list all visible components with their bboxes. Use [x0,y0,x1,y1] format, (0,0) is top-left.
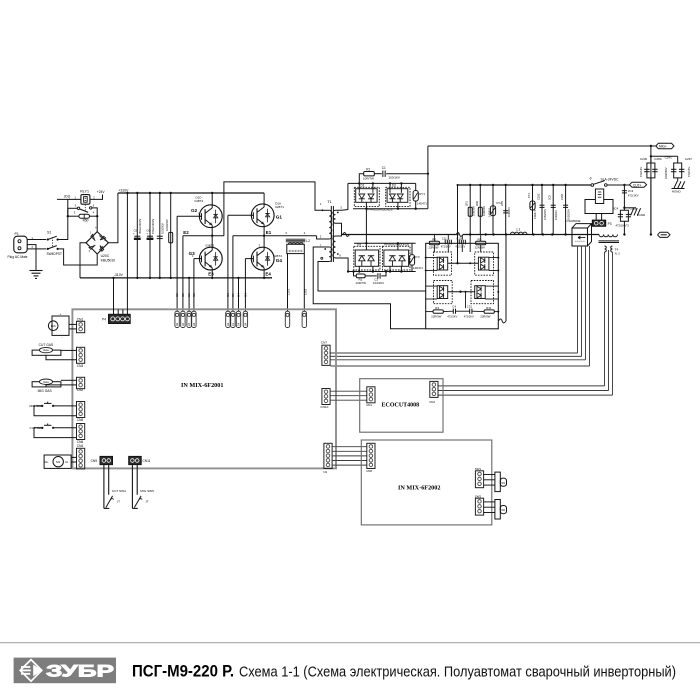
svg-text:G1: G1 [226,293,230,297]
wire MIG+ riser [427,146,429,209]
svg-text:105/250V: 105/250V [543,209,547,220]
wire G1 gate [228,214,254,216]
wire J1 to CUT+ [607,184,630,186]
wire T4 tap [608,250,610,391]
svg-text:T1: T1 [327,200,331,204]
wire bridge to +310 rail [108,193,118,243]
wire valve2 to CN2 [61,379,77,381]
svg-text:-: - [62,336,63,340]
svg-text:E3: E3 [187,293,191,297]
wire bundle CN7 to sensor [331,352,578,354]
wire P4 pin1 to -310 [112,277,114,279]
svg-text:N1: N1 [323,470,327,474]
wire D1D2 cathode bus to MIG riser [353,208,428,210]
svg-text:S1: S1 [47,231,51,235]
svg-text:IN MIX-6F2001: IN MIX-6F2001 [181,382,223,389]
svg-text:472/2KV: 472/2KV [447,314,457,318]
wire T1 pin6 to lower bus [336,258,349,272]
svg-text:103/1KV: 103/1KV [373,281,384,285]
potentiometer RW2 [484,501,495,503]
diode module Q1 [434,252,452,275]
svg-text:472/1KV: 472/1KV [441,244,451,248]
capacitor C252 [541,184,543,186]
relay contact [77,207,79,209]
svg-text:G4: G4 [276,258,283,263]
connector CN8 [367,443,375,468]
svg-text:CN7: CN7 [321,341,327,345]
svg-text:2C5: 2C5 [548,195,552,200]
ground LGND [623,207,625,209]
svg-text:JT: JT [145,500,148,504]
resistor R1 [359,174,363,184]
svg-text:CUT GAS: CUT GAS [39,343,54,347]
svg-text:CN1: CN1 [366,403,372,407]
pin header L202 [302,311,306,327]
fan FAN1 [52,316,69,335]
pin header G2S [175,311,179,327]
capacitor 2C5 [552,184,554,186]
svg-text:L201: L201 [287,288,291,295]
pin header E3S [187,311,191,327]
svg-text:-310V: -310V [114,273,124,277]
wire lower cathode bus [354,242,416,244]
svg-text:E4: E4 [237,293,241,297]
diode module Q2 [475,252,494,275]
resistor R5 [476,241,486,244]
potentiometer RW1 [484,474,495,476]
svg-text:3C4: 3C4 [613,206,619,210]
svg-text:+24V: +24V [97,190,106,194]
connector P3 [595,214,597,221]
svg-text:IN MIX-6F2002: IN MIX-6F2002 [398,484,440,491]
svg-text:G1: G1 [276,215,283,220]
wire sensor leads [577,246,579,353]
pin header G3S [192,311,196,327]
svg-text:IGBT1: IGBT1 [275,205,284,209]
capacitor C31 [469,309,471,314]
varistor RY1 [532,185,534,235]
svg-text:CUT+: CUT+ [633,183,642,187]
valve MIG GAS [32,382,61,387]
svg-text:472/1KV: 472/1KV [455,244,465,248]
wire fan to CN1 [69,323,77,325]
svg-text:CN3: CN3 [77,364,84,368]
wire bridge - return to switch [58,249,98,265]
svg-text:CN1: CN1 [77,317,84,321]
wire G2 emitter to E2 [211,225,213,235]
diode module Q4 [471,281,494,304]
wire T1 pin3 to D bus [336,183,348,210]
capacitor C251 [564,184,566,186]
transformer T4 [599,235,618,237]
svg-text:100R/2W: 100R/2W [165,219,169,231]
resistor R4 [433,310,443,313]
svg-text:Схема 1-1 (Схема электрическая: Схема 1-1 (Схема электрическая. Полуавто… [239,663,676,680]
wire module mid bus lower [448,291,475,293]
svg-text:R50: R50 [83,218,89,222]
wire T1 pin8 aux [321,257,323,259]
svg-text:W1: W1 [501,482,505,485]
wire CN10 to ECOCUT CN1 [330,390,367,392]
wire G4 gate [245,258,253,260]
svg-text:L1: L1 [517,228,521,232]
svg-text:R1: R1 [366,167,370,171]
connector CN10 [322,389,330,405]
wire E4 drop [237,277,239,279]
wire output column [650,146,652,235]
wire lower anode bus [348,271,416,273]
connector CN6 [77,424,85,440]
wire inter bus tie [365,209,367,244]
svg-text:Plug AC Male: Plug AC Male [8,255,28,259]
pin header E2S [181,311,185,327]
resistor R2 [354,272,357,276]
svg-text:Valve: Valve [43,381,50,384]
capacitor 2C1 [505,184,507,186]
svg-text:CS0050NE: CS0050NE [567,219,581,223]
svg-text:22R/5W: 22R/5W [475,245,485,249]
resistor 2R2 [479,184,481,186]
wire T1 center tap [336,223,342,234]
svg-text:10W20K: 10W20K [472,206,476,216]
svg-text:G2: G2 [191,208,198,213]
svg-text:C10: C10 [456,236,462,240]
wire rail to box right edge [505,235,507,322]
svg-text:M1: M1 [56,460,60,464]
wire bridge to -310 rail [80,243,86,278]
svg-text:2R8: 2R8 [475,201,479,206]
board IN MIX-6F2002 [361,440,492,525]
svg-text:SLA-24VDC: SLA-24VDC [601,178,620,182]
plug P1 [14,236,27,253]
svg-text:JDQ: JDQ [64,195,71,199]
terminal MIG+ [650,145,652,147]
svg-text:105/2KV: 105/2KV [161,223,165,234]
svg-text:10R/7W: 10R/7W [356,281,367,285]
capacitor C2 [365,275,377,277]
svg-text:+310V: +310V [119,188,130,192]
svg-text:C250: C250 [654,157,662,161]
wire E2 drop [182,236,184,312]
current transformer box [287,244,305,253]
resistor R31 [484,310,494,313]
terminal minus [650,233,652,235]
svg-text:C252: C252 [536,193,540,200]
svg-text:E2: E2 [183,230,189,235]
svg-text:472/1KV: 472/1KV [687,166,691,177]
capacitor C10 [458,240,460,245]
svg-text:FAN: FAN [51,325,56,328]
svg-text:CN8: CN8 [366,469,372,473]
varistor RV1 [415,183,417,190]
svg-text:G3: G3 [192,293,196,297]
resistor R3 [429,241,439,244]
connector CN11 [129,456,142,464]
svg-text:KBU5010: KBU5010 [101,258,116,262]
wire plug earth [31,245,36,271]
varistor RV2 [492,184,494,186]
svg-text:N: 2: N: 2 [615,252,621,256]
svg-text:M+: M+ [45,460,49,464]
svg-text:14D471: 14D471 [417,201,428,205]
ground HGND [677,178,679,182]
pin header G4S [243,311,247,327]
motor M1 [44,455,71,468]
capacitor C4 [452,309,454,314]
wire G4 gate drop [244,259,246,312]
switch MIG SW5 [131,465,133,509]
wire G3 collector [211,236,213,251]
wire G4 collector [263,236,265,251]
svg-text:KY1: KY1 [527,192,531,198]
wire G2 collector [211,192,213,194]
svg-text:ПСГ-М9-220 Р.: ПСГ-М9-220 Р. [132,661,234,680]
wire CN12 to CN8 [332,446,367,448]
svg-text:MIG SW5: MIG SW5 [140,489,154,493]
svg-text:C230: C230 [640,157,648,161]
wire E2 to T1 pin1 [224,182,322,236]
svg-text:G2: G2 [176,322,179,326]
svg-text:RLY1: RLY1 [80,189,89,193]
capacitor 2C3 [623,185,625,208]
board ECOCUT4008 [360,379,443,433]
svg-text:2R1: 2R1 [465,201,469,206]
svg-text:G4: G4 [243,293,247,297]
connector CN3 [77,347,85,363]
svg-text:C5: C5 [134,229,138,233]
svg-text:C11: C11 [442,236,447,240]
wire G1 emitter to E1 [263,224,265,235]
svg-text:G2: G2 [175,293,179,297]
capacitor C5 bulk [136,192,138,194]
svg-text:W2: W2 [501,509,505,512]
diode module Q3 [434,281,453,304]
logo ZUBR [14,658,116,684]
svg-text:E2: E2 [181,293,185,297]
svg-text:RY1: RY1 [419,192,425,196]
pin header G1S [226,311,230,327]
svg-text:C241: C241 [665,155,673,159]
svg-text:E3: E3 [208,271,214,276]
svg-text:CN5: CN5 [77,418,84,422]
wire E1 to T1 pin2 [317,236,323,239]
svg-text:LGND: LGND [637,213,646,217]
board IN MIX-6F2001 [72,309,336,468]
connector P4 [109,314,131,323]
svg-text:22R/5W: 22R/5W [431,314,441,318]
capacitor C6 bulk [149,192,151,194]
svg-text:10R/7W: 10R/7W [363,176,374,180]
wire G4 emitter E4 [263,277,265,279]
wire E1 drop [232,236,234,312]
pin header L201 [285,311,289,327]
svg-text:CN4: CN4 [77,444,84,448]
svg-text:L2: L2 [306,239,310,243]
svg-text:C4: C4 [452,304,456,308]
connector CN9 [100,456,113,464]
svg-text:ЗУБР: ЗУБР [46,661,114,680]
svg-text:C237: C237 [685,157,693,161]
capacitor C1 [374,173,382,175]
capacitor C230 C250 [650,156,652,163]
wire bundle CN2 to T4 [438,385,605,387]
svg-text:472/2KV: 472/2KV [464,314,474,318]
bridge rectifier U20C [86,232,108,254]
wire plug to switch [31,239,46,241]
svg-text:103/1KV: 103/1KV [389,176,401,180]
svg-text:100/250V: 100/250V [664,167,668,179]
wire valve to CN3 [61,349,77,351]
relay SLA coil [595,189,603,204]
svg-text:MIG+: MIG+ [659,145,667,149]
wire E3 drop [188,277,190,279]
svg-text:CUT SW4: CUT SW4 [112,489,126,493]
wire G1 collector [263,193,265,207]
wire switch to relay block [58,216,68,239]
svg-text:CN10: CN10 [320,405,328,409]
wire T1 pin7 aux [313,247,426,329]
svg-text:C239: C239 [630,206,637,210]
pin header E4S [236,311,240,327]
stub wires bottom row [426,311,433,313]
resistor R6 bleeder [170,192,172,194]
svg-text:472/1KV*2: 472/1KV*2 [616,224,630,228]
connector ECO CN2 [430,381,438,397]
svg-text:CN9: CN9 [91,459,98,463]
svg-text:HGND: HGND [672,189,682,193]
wire P4 pin4 to +310 [126,192,128,194]
wire G3 emitter E3 [211,277,213,279]
resistor 2R1 [469,184,471,186]
connector ECO CN1 [367,387,375,403]
svg-text:IGBT2: IGBT2 [195,199,204,203]
svg-text:+: + [60,312,62,316]
wire T4 secondary A [605,246,607,252]
connector CN12 [324,443,332,468]
wire G1 gate drop [227,215,229,311]
wire CT lead B [303,254,305,312]
wire relay coil feed [67,199,69,216]
svg-text:M-: M- [65,460,68,464]
svg-text:RY3: RY3 [414,255,420,259]
svg-text:P4: P4 [102,318,106,322]
wire motor to CN4 [71,456,76,458]
wire +24V [90,195,103,200]
wire module mid bus [448,262,479,264]
svg-text:14D471: 14D471 [533,209,537,219]
svg-text:ECOCUT4008: ECOCUT4008 [382,403,420,409]
wire to bridge + [96,216,98,231]
svg-text:22R/5W: 22R/5W [480,314,490,318]
wire center tap rail [342,234,457,236]
wire G3 gate drop [193,259,195,312]
svg-text:P1: P1 [15,232,19,236]
svg-text:C251: C251 [560,193,564,200]
connector CN2 board [77,377,85,388]
pin header E1S [231,311,235,327]
varistor RV3 [411,243,413,254]
svg-text:10W20K: 10W20K [482,206,486,216]
svg-text:14D821: 14D821 [487,207,491,217]
svg-text:C1: C1 [382,166,386,170]
svg-text:JT: JT [117,500,120,504]
svg-text:SW4DPST: SW4DPST [47,252,62,256]
switch CUT SW4 [103,465,105,509]
terminal CUT+ [630,182,647,187]
wire D1D2 anode bus [348,182,416,184]
capacitor C11 [444,240,446,245]
svg-text:C31: C31 [467,304,473,308]
footer rule [0,642,700,644]
svg-text:L202: L202 [303,288,307,295]
wire cut rail [458,184,592,186]
svg-text:E1: E1 [231,293,235,297]
svg-text:14D471: 14D471 [413,266,424,270]
heatsink box outline [426,243,499,328]
wire T1 pin1 stub [322,209,329,211]
capacitor C7 film [159,192,161,194]
svg-text:E4: E4 [265,271,271,276]
svg-text:150uF/400V: 150uF/400V [151,219,155,234]
wire G3 gate [194,258,202,260]
svg-text:CN2: CN2 [77,388,84,392]
wire P4 stubs [117,309,119,314]
svg-text:450uF/400V: 450uF/400V [138,219,142,234]
svg-text:E1: E1 [266,230,272,235]
svg-text:R4: R4 [435,306,439,310]
svg-text:R31: R31 [486,306,492,310]
svg-text:103/1KV: 103/1KV [554,210,558,220]
wire T4 secondary B [611,246,613,252]
svg-text:472/1KV: 472/1KV [628,193,639,197]
svg-text:2C1: 2C1 [500,201,504,206]
svg-text:CN11: CN11 [143,459,151,463]
svg-text:MIG GAS: MIG GAS [38,389,53,393]
wire T1 pin2 stub [323,238,329,240]
wire G2 gate drop [176,216,178,311]
svg-text:472/1KV: 472/1KV [639,166,643,177]
svg-text:+: + [95,226,97,230]
svg-text:CN2: CN2 [429,400,435,404]
wire rail drop x457 [457,184,459,186]
wire G2 gate [177,215,201,217]
svg-text:P3: P3 [608,222,612,226]
svg-text:22R/5W: 22R/5W [428,245,438,249]
wire MIG+ top run [428,145,656,147]
stub wires top row [433,235,435,242]
svg-text:103/1KV: 103/1KV [507,207,511,217]
capacitor 3C4 C239 [623,208,625,211]
connector CN5 [77,402,85,418]
capacitor C241 C237 [651,155,678,157]
switch J1 [591,184,594,187]
connector CN4 [77,448,85,469]
svg-text:Valve: Valve [43,349,50,352]
resistor R50 [67,215,69,217]
wire CT lead A [287,254,289,312]
ground [30,270,43,272]
